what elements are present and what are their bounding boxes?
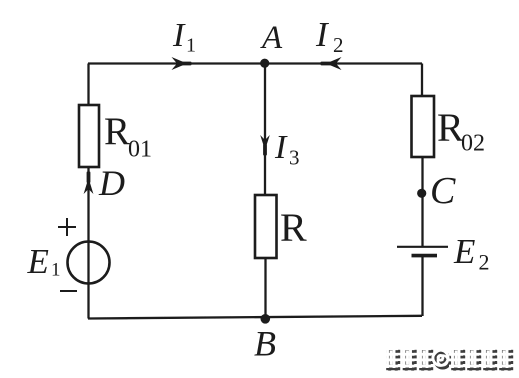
wire left vertical top [87,64,89,107]
svg-text:C: C [430,170,456,212]
svg-text:02: 02 [461,131,485,157]
svg-text:R: R [104,110,130,153]
svg-text:R: R [280,205,307,250]
source E1 circle [68,242,110,284]
svg-text:01: 01 [128,137,152,163]
resistor R01 [79,105,99,167]
resistor R [255,195,277,258]
svg-text:A: A [260,20,283,56]
svg-text:1: 1 [186,35,196,57]
wire left vertical bottom [87,166,89,319]
svg-text:1: 1 [51,260,61,281]
wire right vertical top [421,64,423,98]
battery E2 long plate [397,246,448,248]
arrow I1 (right) [172,57,192,70]
wire middle vertical top [264,64,266,197]
arrow I2 (left) [321,57,342,70]
node A [260,59,269,68]
svg-text:E: E [453,232,475,271]
resistor R02 [412,96,435,157]
minus sign of E1 [60,290,77,292]
svg-text:I: I [274,129,288,166]
node C [417,189,426,198]
svg-text:R: R [437,105,464,150]
svg-text:B: B [254,324,276,364]
svg-text:I: I [172,17,186,54]
wire right vertical middle [421,156,423,246]
watermark sohu [386,350,513,371]
wire right vertical bottom [421,256,423,316]
wire bottom horizontal [88,316,422,319]
battery E2 short plate [412,254,438,258]
arrow I3 (down) [260,135,270,156]
svg-text:D: D [98,163,125,203]
svg-text:2: 2 [479,250,490,275]
wire middle vertical bottom [264,257,266,319]
arrow D (up) [84,172,94,195]
node B [261,314,271,324]
svg-text:E: E [27,242,49,281]
svg-text:3: 3 [289,146,300,170]
plus sign of E1 [58,218,76,236]
wire top horizontal A-left [88,62,422,64]
svg-text:2: 2 [333,33,344,57]
